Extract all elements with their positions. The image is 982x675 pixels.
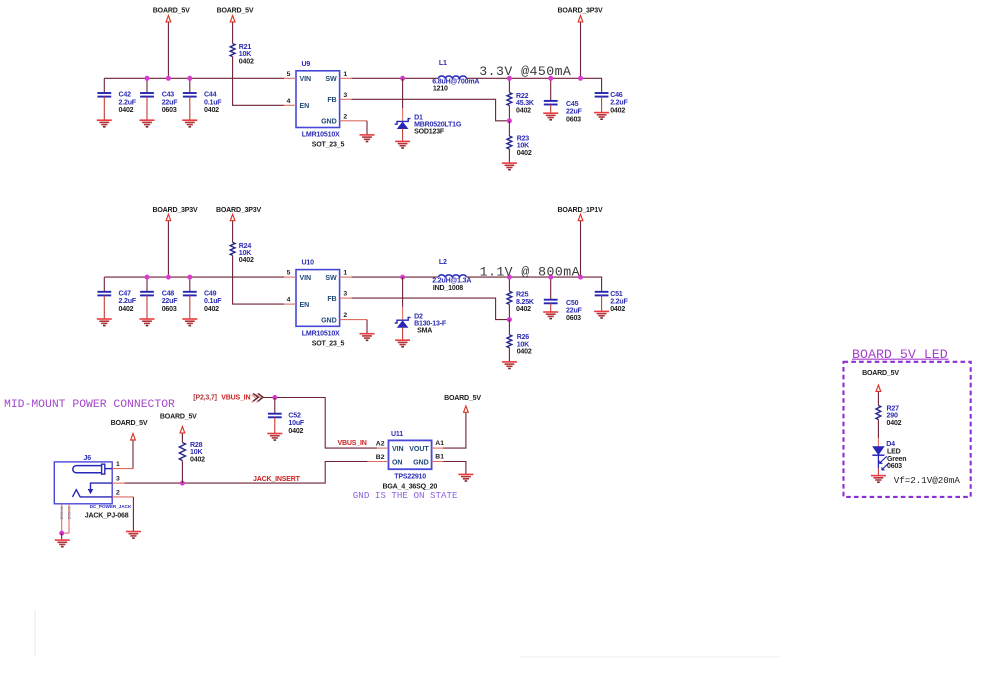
wire output power <box>580 221 582 277</box>
svg-text:LMR10510X: LMR10510X <box>302 331 340 338</box>
svg-text:B130-13-F: B130-13-F <box>414 320 447 327</box>
svg-text:FB: FB <box>327 96 336 104</box>
pin 2 J6 <box>112 496 133 498</box>
svg-text:SOD123F: SOD123F <box>414 129 445 136</box>
wire diode to ground <box>402 327 404 340</box>
svg-text:R25: R25 <box>516 292 529 299</box>
capacitor C45 22uF <box>544 78 583 123</box>
svg-text:C43: C43 <box>162 92 175 99</box>
svg-text:U11: U11 <box>391 431 403 438</box>
node FB <box>507 317 512 322</box>
node FB <box>507 118 512 123</box>
svg-text:BOARD_3P3V: BOARD_3P3V <box>216 207 261 214</box>
svg-text:U9: U9 <box>302 61 311 68</box>
junction <box>145 275 150 280</box>
ground <box>97 319 112 326</box>
wire EN net <box>233 57 284 106</box>
pin 3 J6 <box>112 482 124 484</box>
svg-text:MBR0520LT1G: MBR0520LT1G <box>414 122 462 129</box>
svg-text:SW: SW <box>325 75 337 83</box>
capacitor C43 22uF <box>140 78 178 120</box>
wire VIN bus <box>104 77 284 79</box>
svg-text:10uF: 10uF <box>288 420 305 427</box>
svg-text:B2: B2 <box>376 454 385 461</box>
svg-text:2.2uF: 2.2uF <box>610 299 628 306</box>
svg-text:BOARD_5V: BOARD_5V <box>111 420 148 427</box>
pin A1 stub <box>432 447 444 449</box>
wire SW to diode <box>402 277 404 307</box>
svg-text:Green: Green <box>887 456 906 463</box>
junction C52/VBUS <box>272 395 277 400</box>
power symbol BOARD_5V <box>862 370 899 391</box>
resistor R22 45.3K <box>507 78 535 121</box>
svg-text:10K: 10K <box>517 341 530 348</box>
svg-text:VBUS_IN: VBUS_IN <box>338 440 367 447</box>
svg-text:GND: GND <box>413 459 428 467</box>
pin 2 GND stub <box>340 319 367 321</box>
wire power to R28 <box>181 433 183 442</box>
svg-text:0402: 0402 <box>517 150 532 157</box>
svg-text:R28: R28 <box>190 442 203 449</box>
power symbol BOARD_5V <box>111 420 148 440</box>
power symbol BOARD_3P3V <box>216 207 261 221</box>
svg-text:1: 1 <box>343 270 347 277</box>
svg-text:C44: C44 <box>204 92 217 99</box>
wire diode to ground <box>402 129 404 142</box>
LED D4 Green <box>872 441 906 470</box>
capacitor C46 2.2uF <box>595 91 629 115</box>
node SW <box>400 275 405 280</box>
svg-text:2.2uF: 2.2uF <box>119 298 137 305</box>
svg-text:LMR10510X: LMR10510X <box>302 132 340 139</box>
junction <box>145 76 150 81</box>
wire GND pin to ground <box>366 320 368 334</box>
resistor R26 10K <box>507 320 532 362</box>
ground <box>360 135 375 142</box>
svg-text:C52: C52 <box>288 413 301 420</box>
wire output power <box>580 22 582 78</box>
pin 3 FB stub <box>340 297 352 299</box>
capacitor C49 0.1uF <box>183 277 222 319</box>
svg-text:SW: SW <box>325 274 337 282</box>
svg-text:ON: ON <box>392 459 402 467</box>
svg-text:5: 5 <box>287 71 291 78</box>
svg-text:10K: 10K <box>239 51 252 58</box>
svg-text:R23: R23 <box>517 135 530 142</box>
ground <box>502 362 517 369</box>
power symbol BOARD_3P3V <box>153 207 198 221</box>
svg-text:1: 1 <box>343 71 347 78</box>
dashed boundary box <box>844 362 971 497</box>
svg-text:GND: GND <box>321 118 336 126</box>
svg-text:5: 5 <box>287 270 291 277</box>
junction <box>578 275 583 280</box>
ground <box>543 312 558 319</box>
pin B2 stub <box>367 461 388 463</box>
resistor R28 10K <box>179 442 205 463</box>
pin 1 SW stub <box>340 77 352 79</box>
svg-text:L2: L2 <box>439 259 447 266</box>
wire power to bus <box>167 22 169 78</box>
junction <box>166 275 171 280</box>
svg-text:4: 4 <box>287 98 291 105</box>
svg-text:0402: 0402 <box>288 428 303 435</box>
svg-text:LED: LED <box>887 448 901 455</box>
capacitor C51 2.2uF <box>595 290 629 314</box>
wire R27 to LED <box>877 420 879 439</box>
svg-text:BOARD_3P3V: BOARD_3P3V <box>153 207 198 214</box>
ground <box>97 120 112 127</box>
power symbol BOARD_5V <box>160 413 197 433</box>
svg-text:BOARD_5V: BOARD_5V <box>217 7 254 14</box>
resistor R21 10K <box>230 44 254 66</box>
junction shield <box>59 531 64 536</box>
svg-text:C51: C51 <box>610 291 623 298</box>
svg-text:0402: 0402 <box>887 420 902 427</box>
pin A2 stub <box>377 447 389 449</box>
junction <box>548 275 553 280</box>
svg-text:C45: C45 <box>566 101 579 108</box>
wire power to R pull-up <box>232 221 234 242</box>
svg-text:R22: R22 <box>516 93 529 100</box>
ground <box>871 476 886 483</box>
ground <box>594 113 609 120</box>
svg-text:0402: 0402 <box>119 306 134 313</box>
svg-text:8.25K: 8.25K <box>516 299 535 306</box>
svg-text:3.3V @450mA: 3.3V @450mA <box>479 64 571 79</box>
svg-text:JACK_INSERT: JACK_INSERT <box>253 476 301 483</box>
pin 4 EN stub <box>284 104 296 106</box>
svg-text:0402: 0402 <box>517 349 532 356</box>
resistor R27 290 <box>876 406 902 427</box>
wire R28 to JACK_INSERT <box>181 461 183 484</box>
svg-text:2.2uH@1.3A: 2.2uH@1.3A <box>432 278 471 285</box>
capacitor C52 10uF <box>268 398 305 435</box>
svg-text:2: 2 <box>343 113 347 120</box>
svg-text:3: 3 <box>343 92 347 99</box>
svg-text:0603: 0603 <box>887 463 902 470</box>
svg-text:SOT_23_5: SOT_23_5 <box>312 142 345 149</box>
capacitor C50 22uF <box>544 277 583 322</box>
pin 1 SW stub <box>340 276 352 278</box>
op-amp U10 LMR10510X regulator <box>296 260 344 348</box>
svg-text:0402: 0402 <box>119 107 134 114</box>
power symbol BOARD_1P1V <box>558 207 603 221</box>
svg-text:EN: EN <box>300 301 310 309</box>
ground <box>395 340 410 347</box>
wire VOUT to BOARD_5V <box>443 413 466 448</box>
wire GND pin to ground <box>443 462 466 475</box>
svg-text:0603: 0603 <box>162 107 177 114</box>
svg-text:BOARD_3P3V: BOARD_3P3V <box>558 7 603 14</box>
op-amp U9 LMR10510X regulator <box>296 61 344 149</box>
svg-text:L1: L1 <box>439 60 447 67</box>
svg-text:SMA: SMA <box>417 327 432 334</box>
wire power to R pull-up <box>232 22 234 43</box>
ground <box>395 141 410 148</box>
ground <box>502 163 517 170</box>
wire pin1 to BOARD_5V <box>132 440 134 468</box>
svg-text:C42: C42 <box>119 92 132 99</box>
svg-text:IND_1008: IND_1008 <box>433 285 463 292</box>
svg-text:VBUS_IN: VBUS_IN <box>221 395 250 402</box>
junction <box>548 76 553 81</box>
wire output rail <box>467 277 602 290</box>
faint scan artifacts <box>34 610 36 656</box>
svg-text:0603: 0603 <box>566 315 581 322</box>
svg-text:1210: 1210 <box>433 85 448 92</box>
svg-text:3: 3 <box>116 475 120 482</box>
ground <box>55 540 70 547</box>
svg-text:22uF: 22uF <box>162 298 179 305</box>
svg-text:290: 290 <box>887 413 898 420</box>
junction <box>187 275 192 280</box>
svg-text:10K: 10K <box>239 250 252 257</box>
pin 5 VIN stub <box>284 77 296 79</box>
svg-text:GND: GND <box>321 316 336 324</box>
svg-text:0402: 0402 <box>516 107 531 114</box>
wire power to R27 <box>877 392 879 406</box>
pin 3 FB stub <box>340 98 352 100</box>
power symbol BOARD_5V <box>153 7 190 22</box>
svg-text:A1: A1 <box>435 440 444 447</box>
node output/R top <box>507 76 512 81</box>
ground <box>360 334 375 341</box>
svg-text:0402: 0402 <box>239 257 254 264</box>
svg-text:GND IS THE ON STATE: GND IS THE ON STATE <box>353 490 458 501</box>
ground <box>182 319 197 326</box>
svg-text:10K: 10K <box>517 143 530 150</box>
connector J6 JACK_PJ-068 barrel jack <box>54 455 132 520</box>
svg-text:U10: U10 <box>302 260 315 267</box>
wire shield pins <box>61 504 63 533</box>
wire GND pin to ground <box>366 121 368 135</box>
svg-text:0402: 0402 <box>516 306 531 313</box>
svg-text:2: 2 <box>116 489 120 496</box>
svg-text:0603: 0603 <box>566 116 581 123</box>
svg-text:0.1uF: 0.1uF <box>204 298 222 305</box>
svg-text:C46: C46 <box>610 92 623 99</box>
svg-text:J6: J6 <box>84 455 92 462</box>
svg-text:0603: 0603 <box>162 306 177 313</box>
wire VBUS_IN to U11 <box>263 398 377 449</box>
svg-text:22uF: 22uF <box>566 308 583 315</box>
pin 5 VIN stub <box>284 276 296 278</box>
svg-text:Vf=2.1V@20mA: Vf=2.1V@20mA <box>894 475 961 486</box>
svg-text:R27: R27 <box>887 406 900 413</box>
svg-text:2.2uF: 2.2uF <box>610 100 628 107</box>
svg-text:R24: R24 <box>239 243 252 250</box>
ground <box>182 120 197 127</box>
wire output rail <box>467 78 602 91</box>
svg-text:EN: EN <box>300 102 310 110</box>
svg-text:BOARD_5V: BOARD_5V <box>444 395 481 402</box>
wire SW node <box>352 276 438 278</box>
op-amp U11 TPS22910 load switch <box>383 431 438 490</box>
svg-text:BOARD_5V: BOARD_5V <box>862 370 899 377</box>
svg-text:22uF: 22uF <box>162 99 179 106</box>
off-page connector chevron <box>252 395 262 403</box>
wire SW to diode <box>402 78 404 108</box>
svg-text:VIN: VIN <box>300 75 312 83</box>
pin B1 stub <box>432 461 444 463</box>
pin 2 GND stub <box>340 120 367 122</box>
diode D1 MBR0520LT1G <box>395 115 462 136</box>
svg-text:C50: C50 <box>566 300 579 307</box>
svg-text:0402: 0402 <box>610 107 625 114</box>
ground <box>458 474 473 481</box>
node output/R top <box>507 275 512 280</box>
svg-text:0402: 0402 <box>190 456 205 463</box>
wire FB net <box>352 298 510 320</box>
svg-text:R21: R21 <box>239 44 252 51</box>
svg-text:0402: 0402 <box>204 107 219 114</box>
svg-text:22uF: 22uF <box>566 109 583 116</box>
inductor L2 2.2uH@1.3A <box>432 259 471 292</box>
power symbol BOARD_3P3V <box>558 7 603 22</box>
svg-text:MID-MOUNT POWER CONNECTOR: MID-MOUNT POWER CONNECTOR <box>4 399 175 411</box>
wire LED to ground <box>877 455 879 468</box>
resistor R24 10K <box>230 242 254 264</box>
ground <box>126 532 141 539</box>
ground <box>594 311 609 318</box>
wire pin2 to ground <box>132 497 134 532</box>
svg-text:BOARD_1P1V: BOARD_1P1V <box>558 207 603 214</box>
svg-text:0.1uF: 0.1uF <box>204 99 222 106</box>
svg-text:SOT_23_5: SOT_23_5 <box>312 340 345 347</box>
junction <box>578 76 583 81</box>
svg-text:VIN: VIN <box>300 274 312 282</box>
svg-text:0402: 0402 <box>239 58 254 65</box>
wire SW node <box>352 77 438 79</box>
svg-text:C47: C47 <box>119 290 132 297</box>
svg-text:C49: C49 <box>204 290 217 297</box>
svg-text:D1: D1 <box>414 115 423 122</box>
svg-text:45.3K: 45.3K <box>516 100 535 107</box>
svg-text:DC_POWER_JACK: DC_POWER_JACK <box>90 504 132 509</box>
wire JACK_INSERT net <box>125 462 368 484</box>
svg-text:BOARD_5V: BOARD_5V <box>160 413 197 420</box>
svg-text:A2: A2 <box>376 441 385 448</box>
svg-text:BOARD_5V: BOARD_5V <box>153 7 190 14</box>
svg-text:R26: R26 <box>517 334 530 341</box>
ground <box>543 113 558 120</box>
svg-text:1: 1 <box>116 461 120 468</box>
wire VIN bus <box>104 276 284 278</box>
power symbol BOARD_5V <box>217 7 254 22</box>
wire power to bus <box>167 221 169 277</box>
svg-text:JACK_PJ-068: JACK_PJ-068 <box>85 512 129 519</box>
junction <box>187 76 192 81</box>
svg-text:0402: 0402 <box>610 306 625 313</box>
svg-text:10K: 10K <box>190 449 203 456</box>
resistor R25 8.25K <box>507 277 535 320</box>
svg-text:2: 2 <box>343 312 347 319</box>
diode D2 B130-13-F <box>395 313 447 334</box>
power symbol BOARD_5V <box>444 395 481 413</box>
svg-text:[P2,3,7]: [P2,3,7] <box>193 395 216 402</box>
svg-text:0402: 0402 <box>204 306 219 313</box>
resistor R23 10K <box>507 121 532 163</box>
capacitor C44 0.1uF <box>183 78 222 120</box>
svg-text:4: 4 <box>287 297 291 304</box>
svg-text:VIN: VIN <box>392 445 404 453</box>
node SW <box>400 76 405 81</box>
svg-text:2.2uF: 2.2uF <box>119 99 137 106</box>
svg-text:VOUT: VOUT <box>409 445 429 453</box>
pin 4 EN stub <box>284 303 296 305</box>
capacitor C47 2.2uF <box>97 277 136 319</box>
wire FB net <box>352 99 510 121</box>
svg-text:D2: D2 <box>414 313 423 320</box>
svg-text:D4: D4 <box>886 441 895 448</box>
svg-text:FB: FB <box>327 295 336 303</box>
svg-text:C48: C48 <box>162 290 175 297</box>
ground <box>140 319 155 326</box>
ground <box>140 120 155 127</box>
junction R28/JACK_INSERT <box>180 481 185 486</box>
svg-text:TPS22910: TPS22910 <box>394 473 426 480</box>
capacitor C48 22uF <box>140 277 178 319</box>
junction <box>166 76 171 81</box>
svg-text:1.1V @ 800mA: 1.1V @ 800mA <box>480 264 580 279</box>
svg-text:3: 3 <box>343 291 347 298</box>
wire EN net <box>233 255 284 304</box>
pin 1 J6 <box>112 468 133 470</box>
inductor L1 6.8uH@700mA <box>432 60 479 92</box>
ground <box>267 434 282 441</box>
capacitor C42 2.2uF <box>97 78 136 120</box>
svg-text:B1: B1 <box>435 454 444 461</box>
